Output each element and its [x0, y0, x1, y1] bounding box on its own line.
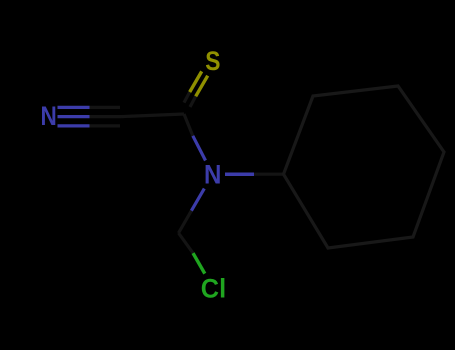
svg-text:S: S: [205, 46, 220, 76]
svg-text:N: N: [204, 160, 221, 190]
svg-text:N: N: [41, 101, 57, 131]
svg-text:Cl: Cl: [201, 274, 226, 304]
